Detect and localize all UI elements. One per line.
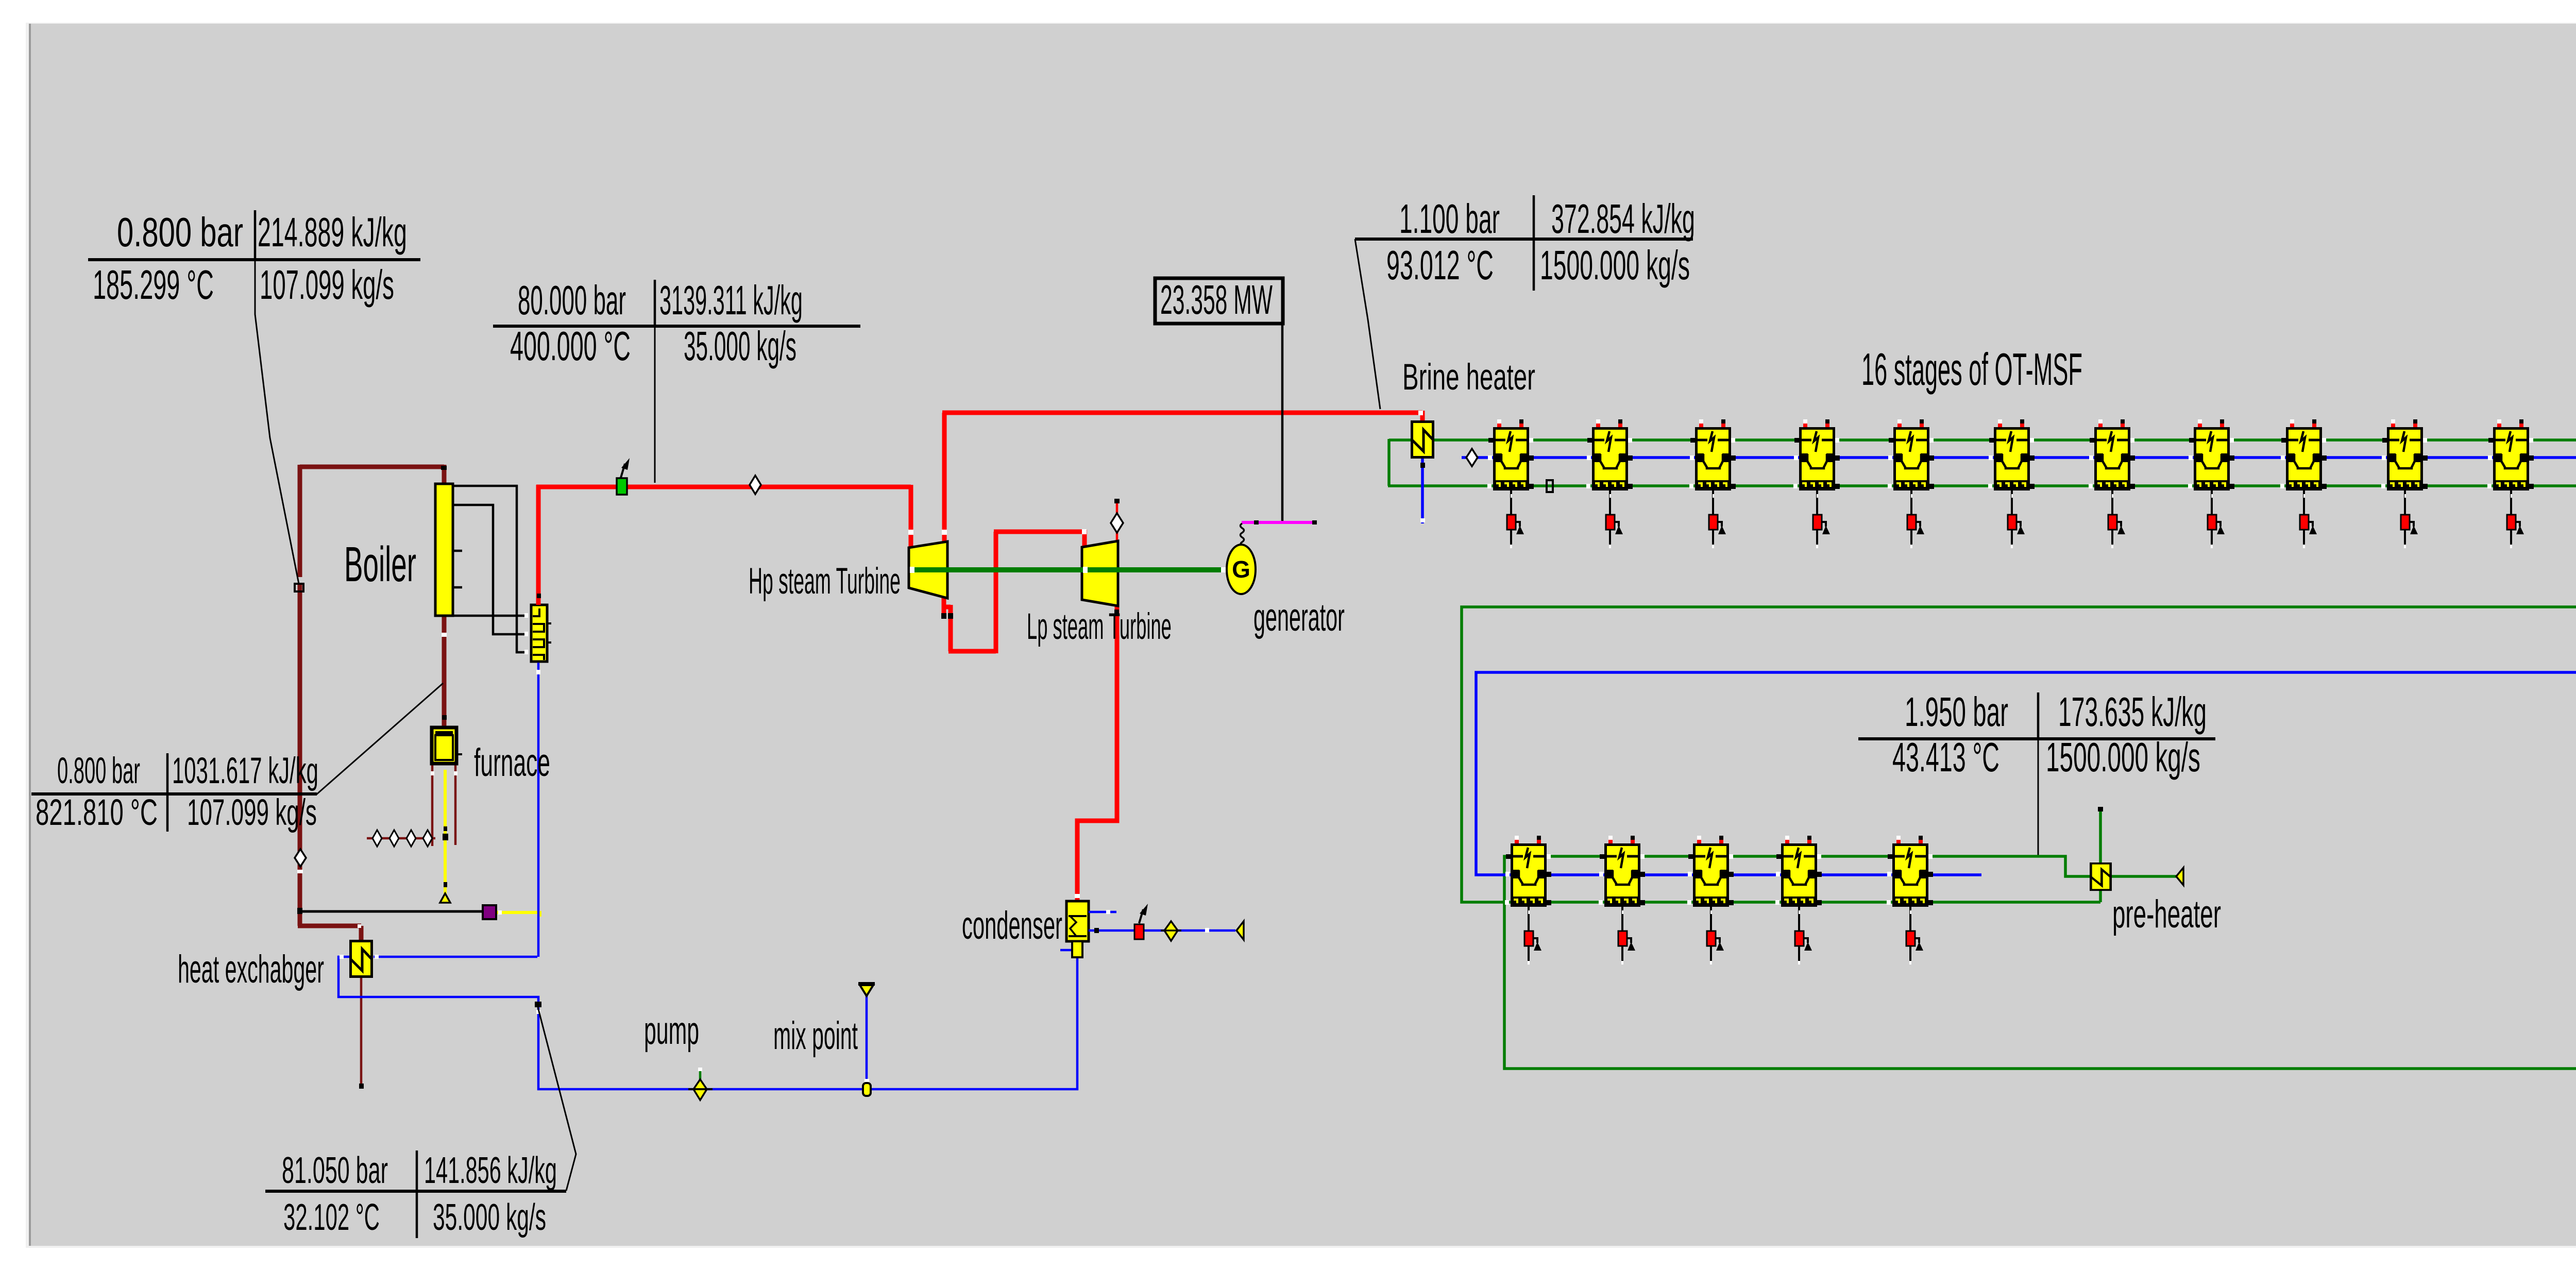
- svg-text:372.854 kJ/kg: 372.854 kJ/kg: [1551, 195, 1695, 242]
- svg-text:1031.617 kJ/kg: 1031.617 kJ/kg: [172, 751, 318, 791]
- svg-text:1.100 bar: 1.100 bar: [1399, 196, 1500, 242]
- svg-text:1500.000 kg/s: 1500.000 kg/s: [1540, 242, 1690, 288]
- svg-text:400.000 °C: 400.000 °C: [510, 323, 631, 369]
- svg-text:1500.000 kg/s: 1500.000 kg/s: [2046, 734, 2200, 780]
- svg-text:93.012 °C: 93.012 °C: [1386, 242, 1494, 288]
- svg-text:Lp steam Turbine: Lp steam Turbine: [1027, 606, 1172, 647]
- svg-text:Brine heater: Brine heater: [1402, 356, 1535, 397]
- svg-text:heat exchabger: heat exchabger: [178, 947, 324, 991]
- svg-text:16 stages of OT-MSF: 16 stages of OT-MSF: [1861, 344, 2082, 395]
- svg-text:107.099 kg/s: 107.099 kg/s: [187, 792, 317, 833]
- svg-text:141.856 kJ/kg: 141.856 kJ/kg: [424, 1150, 557, 1191]
- svg-text:Boiler: Boiler: [344, 536, 416, 592]
- svg-text:35.000 kg/s: 35.000 kg/s: [433, 1196, 546, 1238]
- svg-text:23.358 MW: 23.358 MW: [1160, 277, 1273, 323]
- svg-text:generator: generator: [1253, 596, 1345, 639]
- svg-text:pre-heater: pre-heater: [2112, 892, 2221, 936]
- svg-text:35.000 kg/s: 35.000 kg/s: [684, 323, 796, 369]
- svg-text:107.099 kg/s: 107.099 kg/s: [260, 262, 394, 308]
- svg-text:185.299 °C: 185.299 °C: [93, 262, 214, 308]
- svg-text:1.950 bar: 1.950 bar: [1905, 688, 2008, 735]
- svg-text:173.635 kJ/kg: 173.635 kJ/kg: [2058, 689, 2207, 735]
- svg-text:furnace: furnace: [474, 741, 550, 785]
- svg-text:pump: pump: [644, 1009, 699, 1053]
- svg-text:32.102 °C: 32.102 °C: [283, 1197, 380, 1238]
- svg-text:214.889 kJ/kg: 214.889 kJ/kg: [258, 209, 407, 255]
- svg-text:81.050 bar: 81.050 bar: [282, 1149, 388, 1191]
- svg-text:0.800 bar: 0.800 bar: [57, 750, 140, 791]
- svg-text:80.000 bar: 80.000 bar: [518, 277, 626, 323]
- svg-text:G: G: [1232, 556, 1250, 583]
- svg-text:mix point: mix point: [773, 1014, 858, 1058]
- svg-text:0.800 bar: 0.800 bar: [117, 209, 243, 255]
- svg-text:43.413 °C: 43.413 °C: [1892, 734, 1999, 780]
- svg-text:821.810 °C: 821.810 °C: [36, 791, 158, 833]
- svg-text:condenser: condenser: [962, 903, 1062, 947]
- svg-text:Hp steam Turbine: Hp steam Turbine: [749, 561, 901, 602]
- svg-text:3139.311 kJ/kg: 3139.311 kJ/kg: [659, 277, 803, 323]
